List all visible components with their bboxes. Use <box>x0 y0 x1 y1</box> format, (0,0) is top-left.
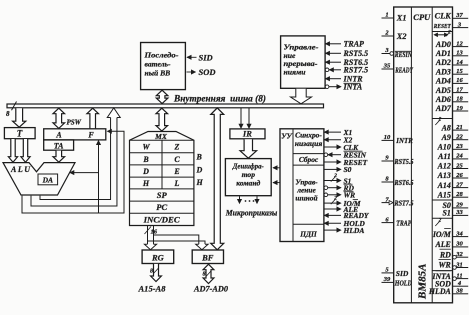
svg-text:39: 39 <box>383 276 391 283</box>
svg-text:25: 25 <box>455 162 463 169</box>
svg-text:19: 19 <box>456 105 463 112</box>
svg-text:W: W <box>142 142 150 151</box>
svg-text:A15-A8: A15-A8 <box>138 284 167 294</box>
svg-text:X2: X2 <box>396 32 407 41</box>
svg-text:READY: READY <box>395 66 414 74</box>
svg-text:18: 18 <box>456 96 463 103</box>
svg-text:11: 11 <box>456 272 462 279</box>
svg-text:B: B <box>142 155 149 164</box>
svg-text:8: 8 <box>203 272 206 278</box>
svg-text:УУ: УУ <box>281 132 292 141</box>
svg-text:RST7.5: RST7.5 <box>394 199 414 207</box>
svg-text:ный ВВ: ный ВВ <box>145 69 171 78</box>
svg-text:2: 2 <box>438 218 442 223</box>
svg-text:F: F <box>87 131 94 140</box>
svg-text:WR: WR <box>439 261 451 270</box>
svg-text:E: E <box>173 167 179 176</box>
svg-text:8: 8 <box>150 269 153 275</box>
svg-text:34: 34 <box>455 230 463 237</box>
svg-text:команд: команд <box>236 179 260 188</box>
svg-text:10: 10 <box>384 134 391 141</box>
svg-text:INC/DEC: INC/DEC <box>143 214 180 224</box>
svg-text:27: 27 <box>455 181 463 188</box>
svg-text:Последо-: Последо- <box>143 51 179 60</box>
svg-text:2: 2 <box>438 117 442 122</box>
svg-text:35: 35 <box>383 63 391 70</box>
svg-text:RST7.5: RST7.5 <box>343 66 369 75</box>
svg-text:TA: TA <box>54 141 64 150</box>
svg-text:A10: A10 <box>437 143 451 152</box>
svg-text:MX: MX <box>154 132 168 141</box>
svg-text:23: 23 <box>455 143 463 150</box>
svg-text:тор: тор <box>242 170 256 179</box>
svg-text:16: 16 <box>456 77 463 84</box>
svg-text:RST6.5: RST6.5 <box>394 179 414 187</box>
svg-text:INTR: INTR <box>395 136 412 145</box>
svg-text:16: 16 <box>151 229 158 236</box>
svg-text:HOLD: HOLD <box>394 279 412 287</box>
svg-text:RESET: RESET <box>433 23 452 30</box>
svg-text:C: C <box>174 155 180 164</box>
svg-text:шиной: шиной <box>295 194 317 203</box>
svg-text:AD0: AD0 <box>435 40 451 49</box>
svg-text:A9: A9 <box>441 133 451 142</box>
svg-text:38: 38 <box>455 288 463 295</box>
svg-text:SOD: SOD <box>199 67 216 77</box>
svg-text:PC: PC <box>156 202 167 212</box>
svg-text:AD7-AD0: AD7-AD0 <box>193 284 229 294</box>
svg-text:37: 37 <box>455 12 463 19</box>
svg-text:13: 13 <box>456 50 463 57</box>
svg-text:PSW: PSW <box>67 119 82 127</box>
svg-text:RESIN: RESIN <box>394 51 412 59</box>
svg-text:X1: X1 <box>396 14 407 23</box>
svg-text:H: H <box>142 179 150 188</box>
svg-text:низация: низация <box>295 139 323 148</box>
svg-text:1: 1 <box>385 12 388 19</box>
svg-text:RD: RD <box>439 250 451 259</box>
svg-text:HLDA: HLDA <box>428 287 451 296</box>
svg-text:2: 2 <box>333 173 337 179</box>
svg-text:SP: SP <box>157 190 168 200</box>
svg-text:SID: SID <box>396 269 409 278</box>
svg-text:A8: A8 <box>441 123 451 132</box>
svg-text:2: 2 <box>333 196 337 202</box>
svg-text:ватель-: ватель- <box>145 60 171 69</box>
svg-text:15: 15 <box>456 68 463 75</box>
svg-text:RST5.5: RST5.5 <box>394 158 414 166</box>
svg-text:A: A <box>55 131 62 140</box>
svg-text:IR: IR <box>242 129 252 139</box>
svg-text:AD3: AD3 <box>435 67 451 76</box>
svg-text:CLK: CLK <box>435 12 452 21</box>
svg-text:29: 29 <box>455 202 463 209</box>
svg-text:ПДП: ПДП <box>299 230 317 239</box>
svg-text:Z: Z <box>174 142 180 151</box>
svg-text:BF: BF <box>201 252 214 262</box>
svg-text:AD7: AD7 <box>435 104 452 113</box>
svg-text:21: 21 <box>455 124 463 131</box>
svg-text:Внутренняя шина (8): Внутренняя шина (8) <box>173 94 266 104</box>
svg-text:28: 28 <box>455 191 463 198</box>
svg-text:26: 26 <box>455 172 463 179</box>
svg-text:H: H <box>196 178 204 187</box>
svg-text:S1: S1 <box>442 209 450 218</box>
svg-text:A13: A13 <box>437 171 451 180</box>
svg-text:DA: DA <box>42 176 53 185</box>
svg-text:AD2: AD2 <box>435 58 451 67</box>
svg-text:17: 17 <box>456 86 463 93</box>
svg-text:ВМ85А: ВМ85А <box>417 264 429 300</box>
svg-text:A14: A14 <box>437 181 451 190</box>
svg-text:Сброс: Сброс <box>299 155 319 164</box>
svg-text:AD5: AD5 <box>435 86 451 95</box>
svg-text:A12: A12 <box>437 162 451 171</box>
svg-text:ALU: ALU <box>10 165 32 174</box>
svg-text:AD1: AD1 <box>435 49 451 58</box>
svg-text:33: 33 <box>455 209 463 216</box>
svg-text:RG: RG <box>151 252 165 262</box>
svg-text:30: 30 <box>455 241 463 248</box>
svg-text:14: 14 <box>456 59 463 66</box>
svg-text:Микроприказы: Микроприказы <box>225 209 278 218</box>
svg-text:22: 22 <box>455 134 463 141</box>
svg-text:T: T <box>17 128 23 138</box>
svg-text:B: B <box>196 153 203 162</box>
svg-text:HLDA: HLDA <box>343 226 365 235</box>
svg-text:RST5.5: RST5.5 <box>343 49 369 58</box>
svg-text:12: 12 <box>456 40 463 47</box>
svg-text:CPU: CPU <box>413 12 431 22</box>
svg-text:S0: S0 <box>344 165 352 174</box>
svg-text:TRAP: TRAP <box>396 218 411 227</box>
svg-text:SID: SID <box>199 52 213 62</box>
svg-text:TRAP: TRAP <box>344 40 365 49</box>
svg-text:24: 24 <box>455 153 463 160</box>
svg-text:L: L <box>174 179 180 188</box>
svg-text:INTA: INTA <box>343 83 363 92</box>
svg-text:A11: A11 <box>437 152 451 161</box>
svg-text:D: D <box>196 166 203 175</box>
svg-text:ALE: ALE <box>434 240 450 249</box>
svg-text:AD4: AD4 <box>435 77 451 86</box>
svg-text:ниями: ниями <box>284 67 307 76</box>
svg-text:D: D <box>142 167 149 176</box>
svg-text:A15: A15 <box>437 190 451 199</box>
svg-text:IO/M: IO/M <box>432 230 452 239</box>
svg-text:2: 2 <box>447 30 451 35</box>
svg-text:8: 8 <box>6 110 10 118</box>
svg-text:AD6: AD6 <box>435 95 451 104</box>
